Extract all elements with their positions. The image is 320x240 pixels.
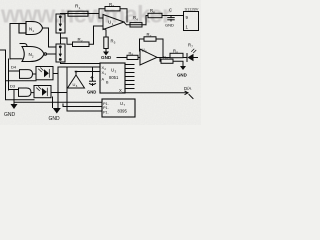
wire left upper bus: [9, 24, 11, 60]
regulator U6 triangle: [68, 75, 85, 88]
label D4: [11, 64, 17, 69]
microcontroller U3 box: [100, 63, 125, 93]
resistor R9 branch: [160, 58, 183, 67]
LED D7: [187, 49, 198, 62]
label C: [169, 8, 172, 13]
label S1128V header: [185, 7, 199, 12]
light arrows diode row2: [37, 87, 48, 96]
wire N2 output: [47, 53, 57, 55]
svg-text:C: C: [169, 8, 172, 13]
svg-text:P1.: P1.: [103, 106, 109, 110]
wire bracket1 to box: [33, 73, 37, 75]
resistor R8 output: [170, 53, 183, 57]
label R8 output: [173, 48, 178, 54]
wire N1 top input: [10, 23, 19, 25]
wire N2 top input hook: [20, 44, 27, 47]
svg-text:8395: 8395: [118, 109, 128, 114]
watermark www.newmaker.com: [0, 2, 171, 29]
optocoupler box PC1: [56, 14, 65, 34]
svg-text:P1.: P1.: [103, 102, 109, 106]
wire left edge stub: [0, 49, 6, 51]
oscillator bus: [58, 62, 100, 81]
label GND under C: [165, 23, 174, 28]
wire PC1 bottom to R2: [61, 33, 73, 44]
wire row2 out: [51, 67, 102, 111]
label P10: [103, 102, 109, 106]
wire top rail: [61, 14, 104, 19]
capacitor C: [168, 16, 174, 22]
optocoupler box PC2: [56, 44, 65, 62]
label R2: [78, 37, 83, 43]
label U3: [111, 68, 117, 74]
wire row1 out: [53, 67, 59, 108]
label GND right: [177, 73, 187, 78]
svg-text:1: 1: [79, 6, 81, 10]
feedback loop R3: [99, 9, 127, 22]
label D3: [10, 84, 16, 89]
label R5: [111, 39, 116, 45]
label X2: [102, 65, 107, 71]
label R3: [109, 2, 114, 8]
op-amp U1: [103, 15, 124, 30]
label X1: [102, 70, 107, 76]
label 8051: [109, 75, 119, 80]
resistor R5 vertical: [104, 29, 109, 49]
label GND bottom center: [49, 116, 61, 122]
label U6: [73, 82, 78, 88]
label R8 input: [129, 51, 134, 57]
label A: [102, 76, 105, 81]
resistor R8 input: [127, 55, 138, 59]
wire U2 input: [117, 57, 127, 59]
capacitor C2 polarized: [90, 76, 96, 85]
diode arrows PC1: [59, 15, 62, 31]
svg-text:P1.: P1.: [103, 111, 109, 115]
ground under R5: [103, 49, 109, 56]
resistor R1: [68, 11, 88, 16]
photodiode box row2: [34, 86, 51, 98]
bottom rail: [14, 102, 102, 106]
feedback loop R7: [140, 39, 164, 58]
DA bus: [123, 91, 194, 98]
label R6: [150, 8, 155, 14]
svg-text:D3: D3: [10, 84, 16, 89]
resistor R2: [73, 42, 90, 47]
label R9: [163, 55, 168, 61]
label R1: [75, 4, 81, 10]
gate N2: [22, 47, 47, 62]
wire triangle to X1: [75, 71, 100, 75]
svg-text:D/A: D/A: [184, 86, 191, 91]
sensor bracket row2: [6, 88, 35, 100]
svg-text:GND: GND: [177, 73, 187, 78]
label X bottom: [119, 88, 122, 93]
resistor R7 feedback: [144, 37, 156, 41]
svg-text:X: X: [119, 88, 122, 93]
label R7 feedback: [147, 32, 152, 38]
label U2: [142, 48, 148, 54]
wire U2 output: [157, 57, 187, 59]
diode arrows PC2: [59, 45, 62, 60]
wire to R6 top right: [146, 16, 184, 25]
svg-text:GND: GND: [49, 116, 61, 122]
ground right: [180, 66, 186, 70]
svg-text:8051: 8051: [109, 75, 119, 80]
scan noise: [0, 0, 201, 125]
label R4: [133, 15, 138, 21]
resistor R3: [105, 7, 120, 11]
svg-text:GND: GND: [4, 112, 16, 118]
peripheral U7 box: [102, 99, 135, 117]
gate N1: [19, 22, 43, 35]
label P11: [103, 106, 109, 110]
label N2: [29, 52, 34, 58]
label P12: [103, 111, 109, 115]
label U7: [120, 101, 126, 107]
resistor R6: [148, 13, 162, 17]
label R7 LED: [188, 43, 193, 49]
label GND bottom left: [4, 112, 16, 118]
sensor bracket row1: [6, 70, 37, 81]
svg-text:D4: D4: [11, 64, 17, 69]
svg-text:GND: GND: [165, 23, 174, 28]
light arrows diode row1: [39, 68, 50, 78]
photodiode box row1: [36, 67, 53, 80]
label D/A: [184, 86, 191, 91]
op-amp U2: [140, 49, 157, 65]
label N1: [29, 27, 34, 33]
label GND under R5: [101, 55, 112, 60]
wire U1 output: [124, 22, 146, 25]
label U1: [108, 20, 114, 26]
wire R2 to U1: [89, 26, 103, 44]
wire left mid bus: [8, 59, 10, 90]
svg-text:GND: GND: [87, 90, 96, 95]
wire N2 lower input: [10, 58, 22, 60]
label GND under C2: [87, 90, 96, 95]
pin 1: [186, 25, 189, 30]
svg-text:A: A: [102, 76, 105, 81]
U3 right pins: [125, 65, 134, 89]
wire N1 output: [43, 28, 56, 47]
wire bracket2 to box: [31, 92, 34, 94]
pin 9: [186, 15, 189, 20]
ground bottom left: [11, 90, 18, 110]
svg-text:S1128V: S1128V: [185, 7, 199, 12]
wire R8 to U2: [138, 57, 140, 59]
resistor R4: [130, 23, 142, 27]
label 8395: [118, 109, 128, 114]
svg-text:GND: GND: [101, 55, 112, 60]
connector box top right: [184, 12, 199, 31]
wire left outer bus: [5, 50, 7, 99]
label B: [106, 81, 109, 85]
ground bottom center: [53, 108, 61, 114]
